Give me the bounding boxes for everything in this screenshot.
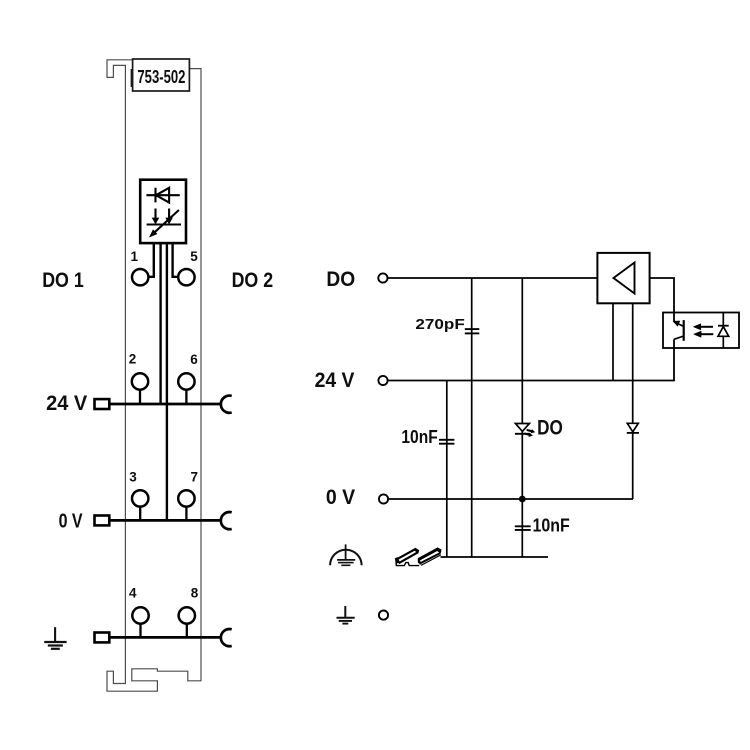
wire optocoupler emitter to 24V: [673, 348, 675, 381]
phototransistor in U3: [674, 313, 684, 349]
capacitor C3 10nF plates: [515, 525, 531, 527]
svg-text:0 V: 0 V: [326, 485, 356, 509]
svg-text:24 V: 24 V: [46, 391, 88, 415]
wire DO net: [388, 277, 598, 279]
diode D3 cathode bar: [627, 432, 639, 434]
module label box: [133, 59, 190, 91]
stem wire terminal 4: [139, 624, 141, 638]
stem wire terminal 2: [139, 390, 141, 404]
wire 0V net: [388, 498, 633, 500]
stem wire terminal 3: [139, 507, 141, 521]
LED DO indicator wire: [521, 278, 523, 499]
wire driver to optocoupler: [650, 278, 674, 313]
svg-text:753-502: 753-502: [137, 67, 185, 87]
LED DO cathode bar: [515, 433, 530, 435]
0V bus connector (left): [95, 516, 110, 526]
wire LED block to 24V bus: [159, 243, 161, 404]
wire LED block to terminal 5: [173, 243, 179, 277]
svg-text:270pF: 270pF: [415, 316, 464, 333]
optocoupler U3 box: [663, 313, 739, 349]
svg-text:3: 3: [129, 470, 137, 485]
node 0V terminal: [379, 494, 388, 503]
svg-text:DO 1: DO 1: [42, 268, 84, 292]
svg-text:4: 4: [129, 586, 137, 601]
chassis bus wire: [441, 556, 549, 558]
svg-text:8: 8: [191, 586, 199, 601]
svg-text:10nF: 10nF: [401, 427, 437, 447]
LED DO light arrows: [526, 428, 536, 435]
earth bus connector (left): [95, 633, 110, 643]
terminal 2: [132, 373, 148, 389]
DIN rail symbol: [395, 548, 442, 566]
terminal 7: [178, 490, 194, 506]
driver U2 box: [597, 253, 649, 303]
svg-text:1: 1: [131, 249, 139, 264]
module body outline: [107, 60, 201, 691]
terminal 8: [179, 607, 195, 623]
svg-text:24 V: 24 V: [315, 368, 355, 392]
24V bus wire (left): [108, 403, 221, 406]
terminal 4: [132, 607, 148, 623]
24V bus socket arc (left): [221, 396, 232, 413]
diode D3 triangle: [627, 423, 638, 432]
earth ground symbol: [337, 606, 355, 624]
svg-text:DO 2: DO 2: [232, 268, 274, 292]
wire LED block to 0V bus: [166, 243, 168, 520]
capacitor C1 270pF plates: [465, 328, 480, 330]
svg-text:0 V: 0 V: [59, 511, 84, 533]
svg-text:7: 7: [190, 470, 198, 485]
0V bus wire (left): [108, 519, 221, 522]
svg-text:10nF: 10nF: [533, 516, 570, 536]
status LED block: [140, 180, 186, 243]
diode symbol in LED block: [146, 188, 179, 203]
LED symbol arrows in LED block: [147, 209, 181, 237]
wire driver output A: [612, 303, 614, 380]
terminal 5: [178, 269, 194, 285]
0V bus socket arc (left): [221, 512, 232, 529]
node 24V terminal: [378, 376, 387, 385]
earth bus socket arc (left): [221, 629, 232, 646]
svg-text:5: 5: [190, 249, 198, 264]
stem wire terminal 6: [185, 390, 187, 404]
svg-text:2: 2: [129, 352, 137, 367]
svg-text:DO: DO: [537, 417, 563, 440]
ground symbol (module earth label): [44, 627, 66, 649]
wire 24V net: [388, 380, 675, 382]
earth terminal circle: [379, 611, 388, 620]
LED in U3: [718, 313, 729, 349]
LED DO triangle: [515, 424, 529, 432]
svg-text:DO: DO: [326, 267, 355, 291]
svg-text:6: 6: [190, 352, 198, 367]
capacitor C2 10nF wire: [446, 381, 448, 558]
stem wire terminal 7: [185, 507, 187, 521]
terminal 1: [132, 269, 148, 285]
wire driver output B / diode branch: [632, 303, 634, 499]
light arrows in U3: [693, 324, 713, 338]
chassis ground symbol: [330, 544, 362, 565]
24V bus connector (left): [95, 399, 110, 409]
node DO terminal: [378, 273, 387, 282]
driver U2 triangle: [614, 263, 635, 294]
earth bus wire (left): [108, 636, 221, 639]
capacitor C1 270pF wire: [471, 278, 473, 557]
terminal 3: [132, 490, 148, 506]
capacitor C2 10nF plates: [439, 439, 454, 441]
capacitor C3 10nF wire: [521, 499, 523, 557]
label box left tick: [131, 69, 133, 87]
wire LED block to terminal 1: [148, 243, 153, 277]
junction node on 0V: [519, 496, 526, 503]
stem wire terminal 8: [186, 624, 188, 638]
terminal 6: [178, 373, 194, 389]
